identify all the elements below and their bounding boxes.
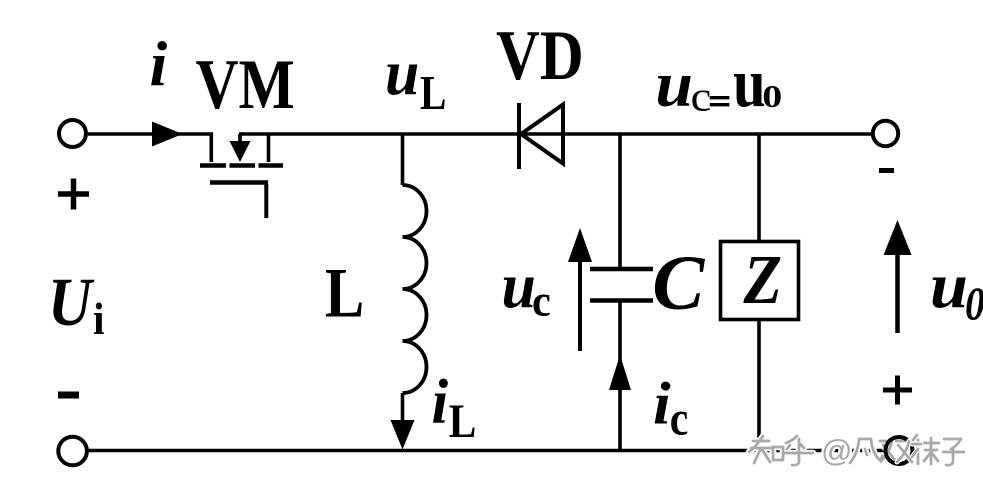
svg-text:c: c [670, 390, 688, 445]
svg-text:C: C [652, 239, 705, 326]
svg-text:u: u [385, 37, 419, 109]
svg-text:i: i [432, 367, 449, 437]
svg-text:0: 0 [762, 79, 782, 114]
svg-text:L: L [449, 394, 477, 448]
svg-text:u: u [733, 43, 766, 121]
svg-text:u: u [930, 250, 968, 321]
svg-text:0: 0 [965, 278, 983, 330]
svg-text:i: i [93, 294, 105, 344]
svg-text:i: i [653, 371, 671, 437]
svg-text:L: L [325, 254, 364, 332]
svg-text:c: c [691, 73, 712, 120]
svg-text:U: U [48, 264, 95, 340]
svg-text:i: i [150, 28, 168, 99]
svg-text:u: u [502, 250, 536, 322]
svg-text:VD: VD [496, 17, 584, 95]
svg-text:@: @ [821, 433, 852, 468]
svg-text:Z: Z [743, 242, 782, 319]
svg-text:L: L [420, 65, 446, 120]
svg-text:c: c [532, 277, 551, 326]
svg-text:u: u [655, 49, 693, 121]
svg-text:VM: VM [196, 46, 295, 124]
